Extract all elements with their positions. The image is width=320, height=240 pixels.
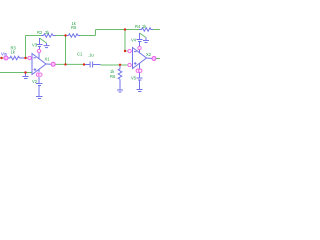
wire X1 output to C1 <box>55 63 84 65</box>
pin ring X2 Vplus <box>138 46 141 49</box>
wire R3 to node A <box>23 57 28 59</box>
svg-text:R4: R4 <box>135 24 141 29</box>
ground of V2 <box>36 97 43 99</box>
junction node B top <box>64 34 66 36</box>
wire R2 to node B <box>56 35 66 37</box>
wire step up <box>95 30 97 36</box>
resistor R3 <box>8 56 24 59</box>
junction node C <box>124 28 126 30</box>
pin ring X2 plus <box>128 63 131 66</box>
wire V3 diagonal to ground <box>40 38 47 43</box>
svg-text:V4: V4 <box>131 38 137 43</box>
capacitor C1 <box>84 62 101 68</box>
wire input left <box>0 57 4 59</box>
port X1 output <box>51 62 55 66</box>
pin ring V2 top <box>39 73 42 76</box>
battery V2 <box>36 77 43 96</box>
battery V5 <box>137 72 143 89</box>
ground of V4 <box>143 38 149 43</box>
pin ring X2 minus <box>128 49 131 52</box>
resistor R4 <box>139 28 153 31</box>
wire R5 to step <box>80 35 96 37</box>
svg-text:V5: V5 <box>131 76 137 81</box>
wire node A vertical feedback <box>25 36 27 59</box>
pin ring X1 Vminus <box>36 73 39 76</box>
junction dot input edge <box>0 57 2 59</box>
op-amp X2 <box>133 48 152 69</box>
ground at X1 plus input <box>23 73 29 79</box>
junction C1 left <box>83 63 85 65</box>
wire node C vertical to X2 minus <box>124 30 126 52</box>
pin ring X1 minus <box>28 56 31 59</box>
junction X2 minus <box>124 50 126 52</box>
svg-text:X1: X1 <box>45 57 51 62</box>
junction node A <box>24 57 26 59</box>
svg-text:X2: X2 <box>146 52 152 57</box>
svg-text:R5: R5 <box>71 25 77 30</box>
junction X1 output node <box>64 63 66 65</box>
svg-text:V2: V2 <box>32 79 38 84</box>
ground of V3 <box>44 43 50 48</box>
wire top rail right <box>96 29 140 31</box>
battery V3 <box>37 38 43 49</box>
op-amp X1 <box>32 53 51 75</box>
svg-text:V3: V3 <box>32 43 38 48</box>
ground below R6 <box>117 90 123 92</box>
svg-text:Vin: Vin <box>1 52 8 57</box>
wire C1 to X2 plus <box>101 64 128 66</box>
pin ring V5 top <box>139 69 142 72</box>
wire R4 to right edge <box>153 29 160 31</box>
svg-text:.1u: .1u <box>88 53 94 58</box>
wire top rail left <box>26 35 42 37</box>
resistor R2 <box>41 34 56 37</box>
svg-text:R6: R6 <box>110 74 116 79</box>
wire ground X1 plus input <box>0 72 32 74</box>
pin ring X2 Vminus <box>136 69 139 72</box>
wire X2 output to right edge <box>156 58 160 60</box>
port X2 output <box>152 57 156 61</box>
junction R6 top <box>119 64 121 66</box>
wire to X2 minus ring <box>125 50 128 52</box>
ground of V5 <box>137 90 143 92</box>
junction X1 plus ground <box>24 71 26 73</box>
pin ring X1 Vplus <box>37 49 40 52</box>
port Vin <box>4 56 8 60</box>
svg-text:C1: C1 <box>77 52 83 57</box>
battery V4 <box>137 33 143 46</box>
svg-text:R2: R2 <box>37 30 43 35</box>
wire V4 diagonal to ground <box>140 33 147 38</box>
wire node B vertical to X1 output <box>65 36 67 65</box>
resistor R5 <box>66 34 80 37</box>
resistor R6 vertical <box>118 65 122 90</box>
